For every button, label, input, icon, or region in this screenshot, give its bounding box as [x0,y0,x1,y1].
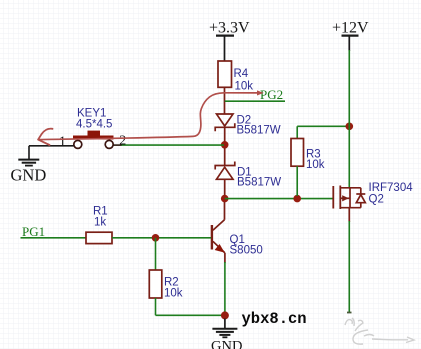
svg-text:GND: GND [11,166,47,185]
wire R3 top to +12V rail [297,125,349,127]
svg-text:1k: 1k [94,217,106,229]
node: R1 / R2 / Q1 base junction [152,234,160,242]
node: D2 cathode / D1 cathode / switch junction [221,141,229,149]
resistor R4 [218,61,253,93]
wire junction to MOSFET gate [225,198,334,200]
ground GND (left) [11,146,47,185]
svg-text:S8050: S8050 [230,245,263,257]
node: D1 anode / Q1 collector / gate net junction [221,195,229,203]
wire +12V rail down to Q2 drain [348,50,350,188]
svg-text:+3.3V: +3.3V [209,20,250,37]
svg-text:10k: 10k [306,159,325,171]
wire Q1 emitter down [224,262,226,312]
resistor R2 [149,238,182,315]
wire Q2 source output down [348,221,350,313]
transistor Q1 S8050 (NPN) [212,202,263,263]
power +3.3V [209,20,250,62]
svg-text:B5817W: B5817W [237,125,281,137]
diode D1 (B5817W) [215,148,281,195]
svg-text:GND: GND [211,339,242,349]
power +12V [332,20,369,52]
svg-text:PG1: PG1 [22,224,45,239]
resistor R3 [291,126,325,196]
svg-text:Q2: Q2 [369,194,384,206]
wire R2 bottom to ground junction [156,314,225,316]
node: +12V / R3 junction [346,123,354,131]
svg-text:ybx8.cn: ybx8.cn [242,310,307,328]
node: emitter / R2 / GND junction [221,311,229,319]
net label PG1 [21,224,87,239]
annotation: red highlight wire from switch to PG2 [38,90,264,145]
wire switch pin2 to junction [121,144,224,146]
wire R4 to D2 [224,87,226,114]
watermark scribble (faint) [345,318,414,344]
svg-text:10k: 10k [164,288,183,300]
svg-text:R4: R4 [234,68,249,80]
net label PG2 [225,87,285,102]
svg-text:1: 1 [59,134,66,149]
svg-text:B5817W: B5817W [237,177,281,189]
svg-text:PG2: PG2 [260,87,283,102]
transistor Q2 IRF7304 (P-MOSFET) [333,182,413,222]
svg-text:4.5*4.5: 4.5*4.5 [76,119,112,131]
wire R1 to junction / Q1 base [112,237,211,239]
svg-text:2: 2 [119,133,126,148]
switch KEY1 [59,108,126,150]
diode D2 (B5817W) [215,114,281,142]
ground GND (bottom) [211,319,242,349]
resistor R1 [86,206,112,244]
svg-text:+12V: +12V [332,20,369,37]
wire switch pin1 to ground [29,145,74,147]
svg-text:IRF7304: IRF7304 [369,182,414,194]
node: R3 bottom / gate wire junction [293,195,301,203]
svg-text:10k: 10k [235,81,254,93]
